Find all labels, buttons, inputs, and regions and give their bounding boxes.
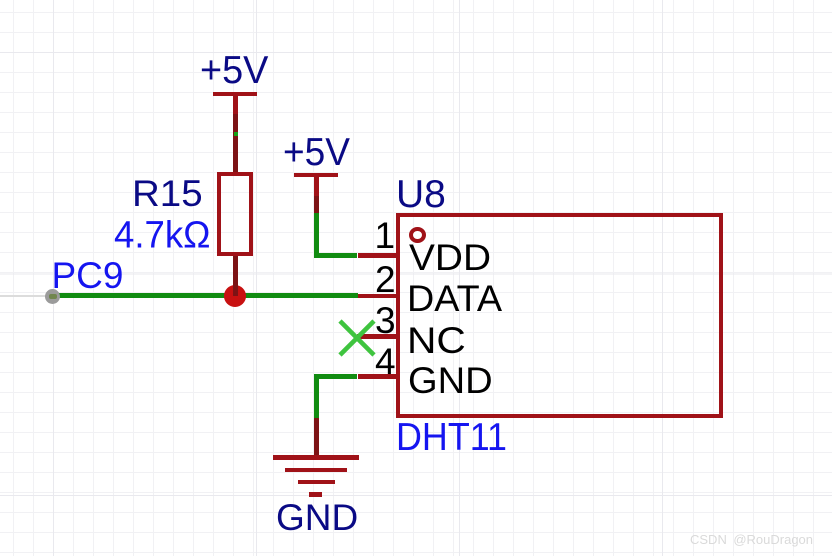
GND label: [276, 499, 358, 536]
4.7kΩ value: [114, 216, 211, 254]
pin 3 stub: [357, 334, 399, 338]
pin number 4: [375, 343, 396, 380]
power stub 2: [314, 174, 319, 196]
watermark: [690, 533, 813, 546]
DHT11 comment: [396, 418, 507, 457]
wire to ground (maroon): [314, 418, 319, 455]
pin 4 stub: [358, 374, 399, 378]
pin number 2: [375, 261, 396, 298]
power stub 1: [233, 93, 238, 114]
+5V label 1: [200, 51, 268, 90]
pin name DATA: [407, 280, 502, 317]
pin name NC: [407, 322, 466, 359]
ground bar 4: [309, 492, 322, 496]
power bar 2: [294, 173, 339, 178]
net label PC9: [52, 257, 124, 294]
port dot PC9: [45, 289, 60, 304]
pin name VDD: [409, 239, 491, 276]
pin number 1: [375, 217, 396, 254]
wire green horizontal to pin 1: [314, 253, 357, 258]
chip body U8: [396, 213, 722, 418]
pin 2 stub: [358, 294, 399, 298]
ground bar 1: [273, 455, 359, 460]
pin number 3: [375, 302, 396, 339]
resistor R15: [217, 172, 253, 256]
wire pin4 green vertical: [314, 374, 319, 418]
no-connect X on pin 3: [338, 319, 376, 357]
wire +5V to R15: [233, 114, 238, 173]
port dot center mark: [49, 294, 57, 299]
wire DATA net (green horizontal): [53, 293, 358, 298]
+5V label 2: [283, 133, 350, 172]
junction dot: [224, 285, 246, 307]
wire +5V2 maroon segment: [314, 196, 319, 213]
junction green dot on wire: [234, 132, 238, 137]
pin name GND: [408, 362, 493, 399]
wire +5V2 green vertical: [314, 213, 319, 259]
ground bar 3: [298, 480, 335, 484]
wire pin4 green horizontal: [314, 374, 357, 379]
wire R15 to junction: [233, 256, 238, 296]
R15 designator: [132, 175, 203, 212]
pin 1 stub: [358, 253, 399, 257]
faint lead line left of port: [0, 295, 46, 297]
pin 1 indicator circle: [409, 227, 426, 243]
U8 designator: [396, 175, 446, 214]
ground bar 2: [285, 468, 347, 472]
power bar 1: [213, 92, 258, 97]
